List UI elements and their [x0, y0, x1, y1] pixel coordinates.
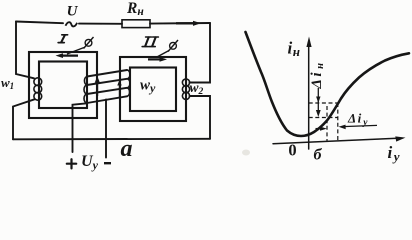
svg-text:0: 0 [288, 141, 296, 160]
svg-text:U: U [67, 4, 79, 20]
svg-text:а: а [121, 136, 133, 162]
svg-text:wу: wу [140, 78, 156, 96]
svg-text:б: б [314, 147, 323, 164]
